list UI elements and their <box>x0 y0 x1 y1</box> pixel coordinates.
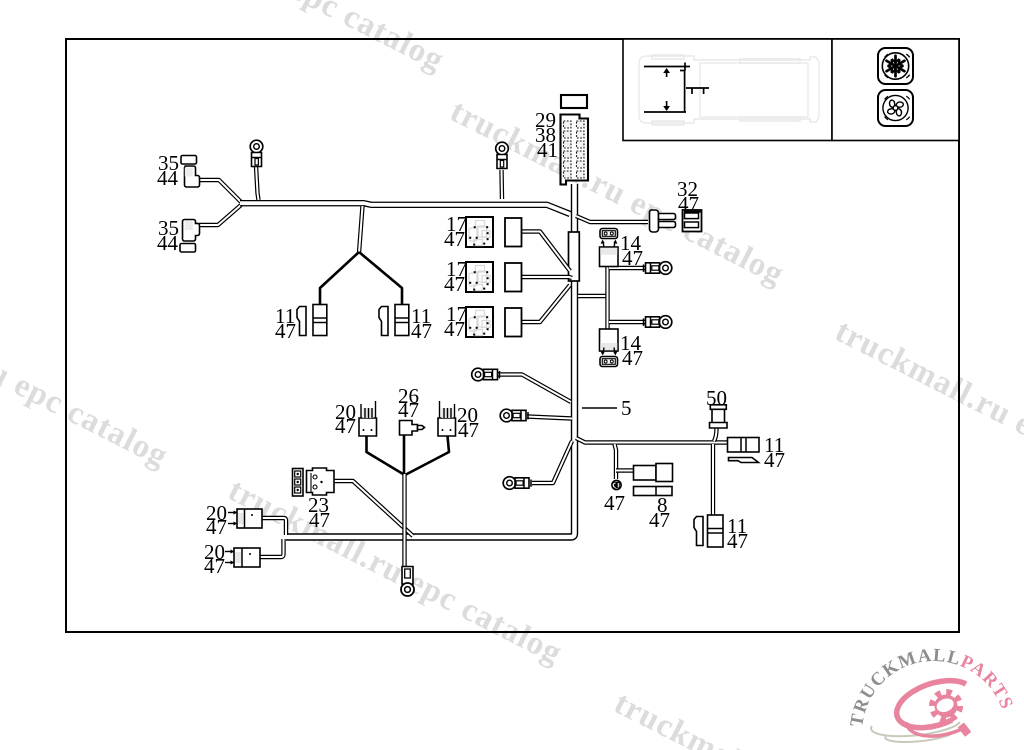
connector 23/47 body <box>307 468 335 495</box>
wire ring terminal D to trunk <box>527 417 572 419</box>
svg-text:41: 41 <box>537 138 558 162</box>
wire from connector 35/44 upper to Y junction <box>196 180 241 202</box>
ring terminal C left <box>472 368 500 381</box>
connector 23/47 pin strip <box>293 469 304 497</box>
connector 20/47 pair-1 <box>237 509 262 528</box>
splice wire down through bundle to bolt <box>402 474 406 566</box>
ring terminal D left <box>500 409 528 422</box>
plug 8/47 <box>634 464 673 482</box>
wire relay block 17/47 no3 to trunk <box>521 285 570 322</box>
wire branch down to bolt 47 <box>615 444 617 479</box>
relay socket 17/47 no1 <box>466 217 493 247</box>
relay 14/47 lower arrows <box>601 348 618 356</box>
sleeve pieces 8/47 <box>634 487 673 496</box>
dimension arrow down (cab) <box>663 101 670 111</box>
wire riser to ring terminal B <box>609 320 646 324</box>
svg-text:47: 47 <box>458 418 479 442</box>
inset box truck thumbnail <box>623 39 832 141</box>
wire 20/47 pair-1 to bundle <box>262 518 286 535</box>
truck top-view light outline <box>560 0 819 125</box>
logo gear <box>933 693 972 737</box>
thick wire 26/47 to splice <box>403 435 406 474</box>
wire relay block 17/47 no2 to trunk <box>521 277 572 278</box>
svg-text:47: 47 <box>764 448 785 472</box>
wire 20/47 pair-2 to bundle <box>260 539 284 557</box>
relay 14/47 upper body <box>600 247 619 267</box>
svg-text:47: 47 <box>206 515 227 539</box>
branch wire down to 11/47 splice <box>359 206 363 253</box>
main trunk vertical and bottom bundle <box>286 184 575 537</box>
clip strip left 11/47 <box>297 307 306 336</box>
relay riser vertical wire <box>605 264 609 331</box>
connector 32/47 socket half <box>683 210 702 232</box>
svg-text:47: 47 <box>411 319 432 343</box>
bolt eyelet bottom ring <box>401 583 414 596</box>
wire relay block 17/47 no1 to trunk <box>521 232 570 272</box>
ring terminal E left <box>503 477 531 490</box>
thick wire Y to left 11/47 <box>320 252 359 304</box>
logo swirl <box>897 681 966 736</box>
svg-text:47: 47 <box>444 317 465 341</box>
clip strip 11/47 bottom <box>694 517 703 546</box>
svg-text:47: 47 <box>398 398 419 422</box>
bolt eyelet bottom body <box>402 567 413 585</box>
svg-text:47: 47 <box>649 508 670 532</box>
logo truckmallparts <box>847 646 1017 742</box>
wire stem of connector 50 <box>714 428 717 441</box>
truck cab black outline <box>644 63 709 113</box>
logo shadow ellipses <box>871 722 960 742</box>
svg-text:47: 47 <box>622 346 643 370</box>
connector 26/47 <box>400 421 425 436</box>
wire trunk to relay riser <box>578 294 606 298</box>
relay 14/47 lower plug <box>600 357 618 367</box>
main top bundle wire to trunk <box>240 203 570 214</box>
connector 29/38/41 body <box>561 115 589 185</box>
svg-text:47: 47 <box>204 554 225 578</box>
bolt eyelet bottom slot <box>405 569 411 578</box>
ring terminal stem left <box>256 166 259 200</box>
ring terminal B right <box>644 316 672 329</box>
connector 35/44 lower body <box>183 220 200 242</box>
svg-text:44: 44 <box>157 231 179 255</box>
svg-text:47: 47 <box>309 508 330 532</box>
connector 35/44 lower cap <box>180 244 196 253</box>
relay 14/47 upper arrows <box>601 240 618 248</box>
main right branch wire <box>576 438 728 443</box>
pins 20/47 pair-2 <box>225 550 235 565</box>
ring terminal upper-left <box>250 140 263 166</box>
wire ring terminal C to trunk <box>497 375 571 403</box>
connector 17/47 no2 <box>505 263 522 292</box>
wire ring terminal E to trunk <box>532 441 572 483</box>
relay 14/47 upper plug <box>600 229 618 239</box>
wire connector 23/47 diagonal to bundle <box>334 481 413 536</box>
svg-text:47: 47 <box>275 319 296 343</box>
thick wire Y to right 11/47 <box>359 252 402 304</box>
svg-text:44: 44 <box>157 166 179 190</box>
icon fan (heater blower) <box>878 90 913 126</box>
relay socket 17/47 no2 <box>466 262 493 292</box>
ring terminal stem mid <box>499 170 504 199</box>
relay 14/47 lower body <box>600 329 619 351</box>
connector 17/47 no3 <box>505 308 522 337</box>
connector 20/47 trio-right <box>438 401 456 436</box>
ring terminal A right <box>644 262 672 275</box>
svg-text:47: 47 <box>604 491 625 515</box>
connector 11/47 left <box>313 305 327 336</box>
svg-text:5: 5 <box>621 396 632 420</box>
leader line item 5 <box>582 407 617 409</box>
svg-text:47: 47 <box>727 529 748 553</box>
connector 17/47 no1 <box>505 218 522 247</box>
connector 20/47 trio-left <box>359 401 377 436</box>
trunk sleeve wrap <box>569 232 580 281</box>
main border frame <box>66 39 959 632</box>
clip strip right 11/47 <box>379 307 388 336</box>
wire from connector 35/44 lower to Y junction <box>196 205 241 225</box>
connector 35/44 upper cap <box>181 156 197 165</box>
bolt terminal 47 <box>612 480 621 489</box>
thick wire 20/47 trio-right to splice <box>405 436 449 475</box>
svg-text:50: 50 <box>706 386 727 410</box>
wire down to 11/47 bottom <box>711 444 715 516</box>
connector 50 <box>710 405 728 428</box>
connector 11/47 bottom <box>708 515 724 547</box>
connector 11/47 right <box>395 305 409 336</box>
connector 35/44 upper body <box>185 166 200 187</box>
connector 11/47 mid-right <box>728 438 760 453</box>
relay socket 17/47 no3 <box>466 307 493 337</box>
dimension arrow up (cab) <box>663 68 670 77</box>
pins 20/47 pair-1 <box>228 511 238 526</box>
connector 29/38/41 cap <box>561 95 587 108</box>
wire riser to ring terminal A <box>609 266 646 270</box>
thick wire 20/47 trio-left to splice <box>367 436 404 474</box>
wire to plug 8/47 <box>616 468 634 472</box>
svg-text:47: 47 <box>444 272 465 296</box>
svg-text:47: 47 <box>335 414 356 438</box>
wire trunk to connector 32/47 <box>576 216 648 222</box>
clip strip 11/47 mid-right <box>729 458 759 463</box>
connector 32/47 terminal half <box>650 210 676 232</box>
svg-text:47: 47 <box>444 227 465 251</box>
connector 20/47 pair-2 <box>234 548 260 567</box>
icon snowflake (air conditioning) <box>878 48 913 84</box>
svg-text:47: 47 <box>678 192 699 216</box>
svg-text:47: 47 <box>622 246 643 270</box>
ring terminal upper-mid <box>496 142 509 168</box>
inset box option icons <box>832 39 959 141</box>
